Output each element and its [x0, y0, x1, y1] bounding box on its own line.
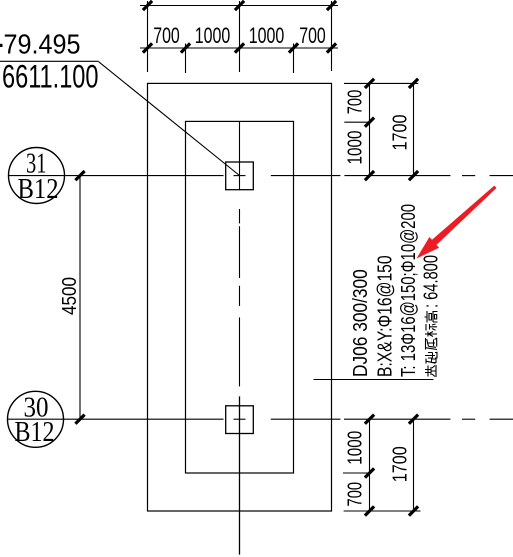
svg-text:B12: B12: [18, 173, 59, 205]
coordinate label fragment at left edge: [0, 44, 3, 47]
right top extension line y=122.2: [344, 121, 371, 123]
svg-text:700: 700: [153, 23, 180, 48]
top dimension line lower (700,1000,1000,700): [140, 47, 338, 49]
foundation outer outline: [148, 83, 332, 511]
red annotation arrow: [417, 186, 497, 259]
svg-text:700: 700: [299, 23, 326, 48]
column top square: [226, 162, 254, 190]
svg-text:700: 700: [345, 90, 367, 115]
svg-text:1000: 1000: [195, 23, 231, 48]
leader line horizontal 79.495: [0, 60, 99, 62]
left dimension line 4500: [79, 176, 81, 420]
svg-text:B:X&Y:Φ16@150: B:X&Y:Φ16@150: [375, 255, 397, 377]
svg-text:700: 700: [345, 482, 367, 507]
fake CJK glyph 1 基: [425, 365, 436, 377]
grid line 30 segments: [8, 418, 224, 420]
grid circle 30: [8, 391, 64, 447]
svg-text:1700: 1700: [390, 446, 412, 482]
grid line 31 segments: [9, 175, 224, 177]
column center line vertical: [239, 121, 241, 190]
svg-text:1000: 1000: [345, 431, 367, 465]
fake CJK glyph 4 标: [425, 324, 437, 337]
top dimension line upper (1700+1700): [140, 5, 338, 7]
svg-text:79.495: 79.495: [4, 29, 81, 60]
svg-text:1000: 1000: [345, 131, 367, 165]
right dimension line A bottom: [369, 419, 371, 511]
annotation text column 4: CJK glyphs (drawn) + value: [425, 311, 438, 377]
fake CJK glyph 2 础: [425, 352, 437, 364]
fake CJK glyph 3 底: [426, 338, 438, 350]
leader diagonal to top column: [99, 62, 240, 176]
right dimension line A top: [369, 83, 371, 175]
svg-text:: 64.800: : 64.800: [421, 255, 443, 308]
extension line x=331.5: [331, 1, 333, 71]
svg-text:4500: 4500: [59, 277, 81, 315]
dimension tick marks: [75, 1, 418, 516]
svg-text:B12: B12: [15, 416, 55, 448]
right dimension line B bottom: [413, 419, 415, 511]
annotation leader line under text block: [314, 379, 434, 381]
right bottom extension line y=473: [343, 472, 372, 474]
extension line x=239.5: [239, 1, 241, 72]
right dimension line B top: [413, 83, 415, 175]
svg-text:1700: 1700: [390, 115, 412, 151]
extension line x=293.5: [293, 44, 295, 74]
right bottom extension line y=511: [344, 510, 421, 512]
column bottom square: [226, 406, 254, 434]
svg-text:DJ06 300/300: DJ06 300/300: [350, 269, 372, 377]
fake CJK glyph 5 高: [425, 311, 438, 323]
svg-text:6611.100: 6611.100: [2, 59, 99, 95]
extension line x=185.5: [185, 44, 187, 74]
svg-text:T: 13Φ16@150;Φ10@200: T: 13Φ16@150;Φ10@200: [398, 204, 420, 377]
svg-text:1000: 1000: [249, 23, 285, 48]
grid circle 31: [9, 148, 65, 204]
foundation inner step outline: [186, 121, 294, 473]
extension line x=147.5: [147, 1, 149, 72]
right top extension line y=83.4: [344, 82, 418, 84]
